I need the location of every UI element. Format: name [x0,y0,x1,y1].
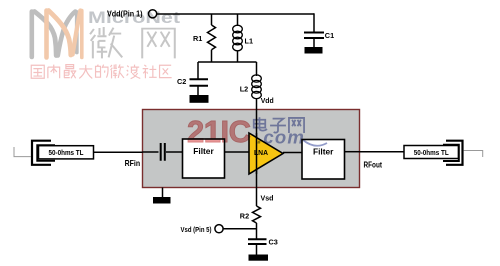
社 [143,65,157,78]
op-amp LNA [249,133,283,174]
wire L1 bottom lead [237,51,239,62]
wire C1 to ground [313,39,315,48]
svg-text:Filter: Filter [313,147,334,157]
wire C3 to ground [256,245,258,255]
right coax connector outer bracket [446,141,463,165]
svg-text:C3: C3 [269,238,278,247]
wire LNA to filter2 [283,152,302,154]
wire C2 to ground [197,87,199,96]
内 [48,65,60,79]
capacitor C1 [304,33,324,39]
wire Vsd feed from LNA down to R2 [256,152,258,206]
wire C2 drop [197,62,199,79]
wire module ground stub [162,188,164,198]
wire Vdd feed into module down to LNA [256,98,258,152]
波 [127,65,141,79]
logo char 网 (gray) [142,29,175,59]
wire junction rail under R1/L1 [198,61,257,63]
wire into module to coupling cap [143,151,159,153]
wire RFout [360,151,405,153]
svg-text:R2: R2 [240,211,249,220]
filter block 2 [302,140,345,180]
区 [160,65,172,77]
电 [254,117,267,130]
left coax connector outer bracket [32,141,51,165]
inductor L1 [233,25,243,51]
wire C1 drop [313,13,315,31]
的 [96,65,109,78]
微 [110,64,123,78]
国 [31,65,44,78]
svg-text:.com: .com [257,127,305,148]
ground C2 [190,95,209,103]
resistor R1 [208,25,216,50]
left coax connector inner bracket [37,145,55,161]
网 [289,118,304,133]
svg-text:RFin: RFin [125,158,141,168]
wire top rail from Vdd pin to C1 [157,13,314,15]
amplifier module block (gray box with maroon border) [143,110,360,188]
svg-text:50-0hms TL: 50-0hms TL [414,148,449,157]
wire Vdd-Vsd feed across LNA [256,133,258,174]
filter block 1 [183,139,225,178]
coupling capacitor (series) [161,143,165,161]
Vdd pin circle [149,10,157,18]
Vsd pin circle [215,225,223,233]
ground C1 [305,47,323,54]
svg-text:Vsd (Pin 5): Vsd (Pin 5) [181,225,212,234]
capacitor C2 [190,79,209,86]
wire RFin [94,151,143,153]
inductor L2 [252,75,262,99]
svg-text:C2: C2 [177,77,186,86]
watermark .com tail [303,140,327,146]
svg-text:Vsd: Vsd [261,194,274,203]
svg-text:50-0hms TL: 50-0hms TL [49,148,84,157]
wire cap to filter1 [166,151,183,153]
svg-text:RFout: RFout [364,159,383,169]
WATERMARKS [31,9,327,149]
right coax connector inner bracket [443,145,459,161]
50-Ohms TL output box [404,146,459,159]
wire filter2 to module edge [345,151,360,153]
logo M peach [47,11,82,58]
svg-text:Vdd: Vdd [261,96,274,105]
wire left stub (thin) [14,147,31,157]
logo char 微 (gray) [90,27,122,58]
svg-text:R1: R1 [193,34,202,43]
大 [79,65,92,78]
svg-text:MicroNet: MicroNet [88,9,181,27]
wire R1 top lead [211,14,213,25]
svg-text:LNA: LNA [254,148,269,157]
svg-text:L2: L2 [240,85,249,94]
子 [270,119,286,133]
capacitor C3 [248,239,267,244]
wire L1 top lead [237,14,239,26]
red slogan 国内最大的微波社区 [31,64,171,78]
50-Ohms TL input box [39,146,94,159]
ground module [153,197,171,204]
svg-text:C1: C1 [325,31,334,40]
ground C3 [249,255,269,261]
logo M gray [32,12,77,58]
wire right stub (thin) [464,151,483,158]
svg-text:21IC: 21IC [187,114,251,149]
最 [64,65,76,79]
wire filter1 to LNA [225,151,250,153]
wire Vsd pin to junction [223,228,256,230]
wire R2 bottom to junction [256,223,258,239]
wire L2 top lead [256,62,258,76]
svg-text:L1: L1 [245,37,254,46]
wire R1 bottom lead [211,50,213,62]
resistor R2 [253,206,261,223]
watermark 电子网 (blue) [254,117,304,133]
